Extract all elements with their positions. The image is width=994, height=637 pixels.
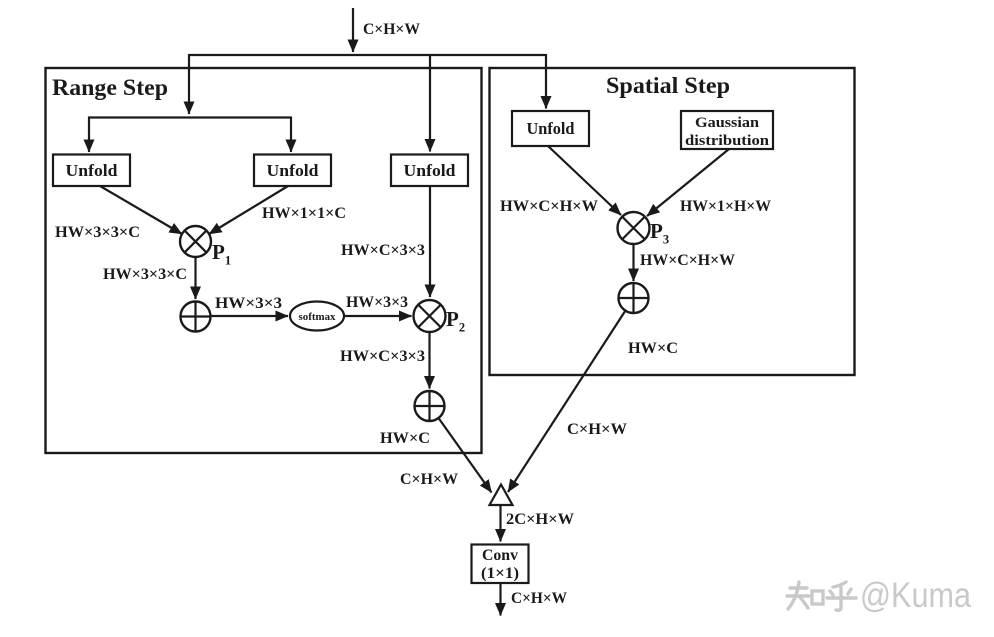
wire: top branch bbox=[189, 54, 546, 56]
wire: input arrow bbox=[352, 8, 354, 52]
zhi: mouth box bbox=[812, 591, 823, 604]
arrow: output bbox=[499, 583, 501, 616]
arrow: Unfold3 to P2 bbox=[429, 186, 431, 297]
arrow: add2 to concat bbox=[439, 418, 492, 493]
box: Unfold 1 bbox=[53, 155, 130, 187]
frame: Range Step bbox=[46, 68, 482, 453]
svg-text:HW×C×3×3: HW×C×3×3 bbox=[340, 348, 425, 365]
svg-text:C×H×W: C×H×W bbox=[400, 471, 458, 488]
arrow: add3 to concat bbox=[508, 311, 626, 493]
node P2 (multiply) bbox=[414, 300, 466, 335]
svg-text:HW×1×H×W: HW×1×H×W bbox=[680, 198, 771, 215]
svg-text:HW×C×3×3: HW×C×3×3 bbox=[341, 242, 425, 259]
node P3 (multiply) bbox=[618, 212, 670, 247]
box: Unfold 3 bbox=[391, 155, 468, 187]
wire: drop to splitter bbox=[188, 54, 190, 114]
box: Unfold spatial bbox=[512, 111, 589, 146]
svg-text:Conv: Conv bbox=[482, 547, 518, 564]
wire: splitter bar bbox=[88, 116, 292, 118]
svg-text:HW×3×3×C: HW×3×3×C bbox=[103, 266, 187, 283]
arrow: concat to Conv bbox=[499, 505, 501, 542]
arrow into Unfold 1 bbox=[88, 117, 90, 153]
svg-text:Unfold: Unfold bbox=[527, 119, 576, 138]
arrow: P1 to add1 bbox=[194, 256, 196, 299]
arrow: Gaussian to P3 bbox=[647, 149, 729, 216]
node P1 (multiply) bbox=[180, 226, 231, 268]
svg-text:C×H×W: C×H×W bbox=[511, 590, 567, 607]
arrow: softmax to P2 bbox=[344, 315, 412, 317]
svg-text:Range Step: Range Step bbox=[52, 75, 168, 100]
svg-text:HW×C×H×W: HW×C×H×W bbox=[640, 252, 735, 269]
arrow into Unfold 3 bbox=[429, 54, 431, 152]
svg-text:HW×C: HW×C bbox=[380, 430, 430, 447]
svg-text:HW×3×3: HW×3×3 bbox=[215, 295, 282, 312]
svg-text:Unfold: Unfold bbox=[267, 161, 320, 180]
svg-text:distribution: distribution bbox=[685, 133, 770, 149]
arrow: Unfold1 to P1 bbox=[100, 186, 182, 234]
arrow: Unfold2 to P1 bbox=[209, 186, 288, 234]
svg-text:softmax: softmax bbox=[299, 312, 337, 323]
arrow into spatial Unfold bbox=[545, 54, 547, 109]
svg-text:Unfold: Unfold bbox=[66, 161, 119, 180]
arrow: spatial Unfold to P3 bbox=[548, 146, 621, 215]
svg-text:Unfold: Unfold bbox=[404, 161, 457, 180]
arrow: add1 to softmax bbox=[211, 315, 289, 317]
arrow into Unfold 2 bbox=[290, 117, 292, 153]
box: Conv (1×1) bbox=[472, 545, 529, 584]
svg-text:@Kuma: @Kuma bbox=[860, 576, 971, 615]
svg-text:HW×3×3×C: HW×3×3×C bbox=[55, 224, 140, 241]
zhi: left component bbox=[790, 586, 807, 589]
hu bbox=[833, 582, 846, 587]
svg-text:Gaussian: Gaussian bbox=[695, 115, 760, 131]
svg-text:C×H×W: C×H×W bbox=[363, 21, 420, 38]
svg-text:(1×1): (1×1) bbox=[481, 565, 519, 582]
arrow: P3 to add3 bbox=[632, 244, 634, 281]
softmax ellipse bbox=[290, 302, 344, 331]
arrow: P2 to add2 bbox=[428, 332, 430, 389]
svg-text:Spatial Step: Spatial Step bbox=[606, 73, 730, 98]
svg-text:HW×C: HW×C bbox=[628, 340, 678, 357]
svg-text:HW×3×3: HW×3×3 bbox=[346, 294, 408, 311]
svg-text:HW×1×1×C: HW×1×1×C bbox=[262, 205, 346, 222]
node add1 (plus) bbox=[181, 302, 211, 332]
watermark: 知乎 @Kuma bbox=[787, 582, 856, 610]
concat triangle bbox=[490, 485, 513, 506]
box: Gaussian distribution bbox=[681, 111, 773, 149]
box: Unfold 2 bbox=[254, 155, 331, 187]
node add2 (plus) bbox=[415, 391, 445, 421]
frame: Spatial Step bbox=[490, 68, 855, 375]
svg-text:HW×C×H×W: HW×C×H×W bbox=[500, 198, 598, 215]
svg-text:2C×H×W: 2C×H×W bbox=[506, 511, 574, 528]
svg-text:C×H×W: C×H×W bbox=[567, 421, 627, 438]
node add3 (plus) bbox=[619, 283, 649, 313]
